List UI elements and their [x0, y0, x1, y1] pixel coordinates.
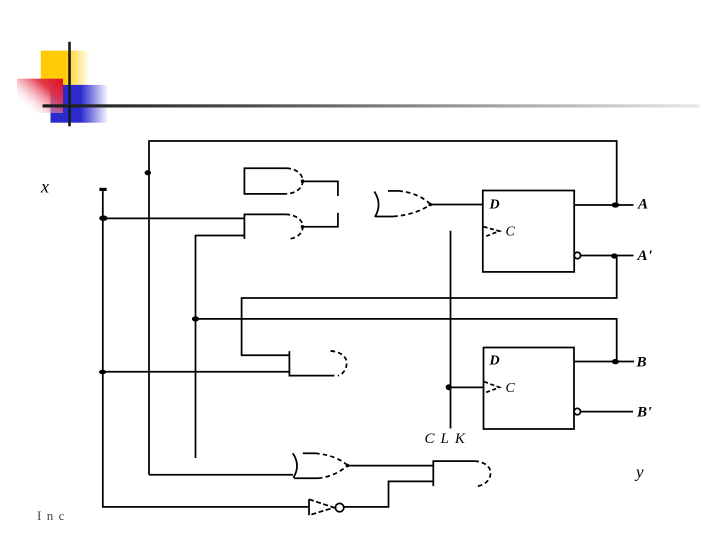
svg-text:A′: A′	[637, 248, 654, 264]
svg-text:C: C	[506, 381, 516, 396]
svg-text:A: A	[637, 197, 648, 213]
svg-text:B′: B′	[636, 405, 653, 421]
svg-text:y: y	[634, 463, 644, 482]
svg-text:B: B	[636, 355, 647, 371]
svg-text:D: D	[489, 354, 500, 369]
svg-text:x: x	[40, 177, 49, 197]
svg-text:Inc: Inc	[37, 508, 70, 523]
svg-text:D: D	[489, 198, 500, 213]
svg-text:CLK: CLK	[425, 431, 471, 447]
svg-text:C: C	[506, 225, 516, 240]
